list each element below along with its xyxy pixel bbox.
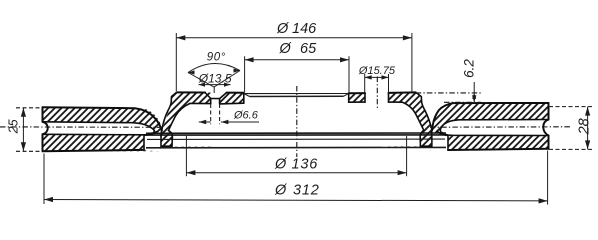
- svg-text:6.2: 6.2: [462, 59, 477, 78]
- svg-text:Ø: Ø: [279, 41, 292, 57]
- svg-text:146: 146: [292, 21, 317, 37]
- svg-text:Ø: Ø: [274, 183, 287, 199]
- svg-text:90°: 90°: [207, 52, 226, 64]
- svg-text:65: 65: [300, 41, 317, 57]
- svg-text:136: 136: [292, 156, 319, 172]
- svg-text:25: 25: [7, 119, 21, 134]
- svg-text:Ø15.75: Ø15.75: [358, 65, 396, 77]
- svg-text:Ø: Ø: [274, 156, 287, 172]
- svg-text:312: 312: [293, 183, 320, 199]
- svg-text:Ø: Ø: [276, 21, 289, 37]
- svg-text:28: 28: [577, 118, 593, 135]
- svg-text:Ø13.5: Ø13.5: [198, 71, 232, 85]
- svg-text:Ø6.6: Ø6.6: [233, 110, 259, 122]
